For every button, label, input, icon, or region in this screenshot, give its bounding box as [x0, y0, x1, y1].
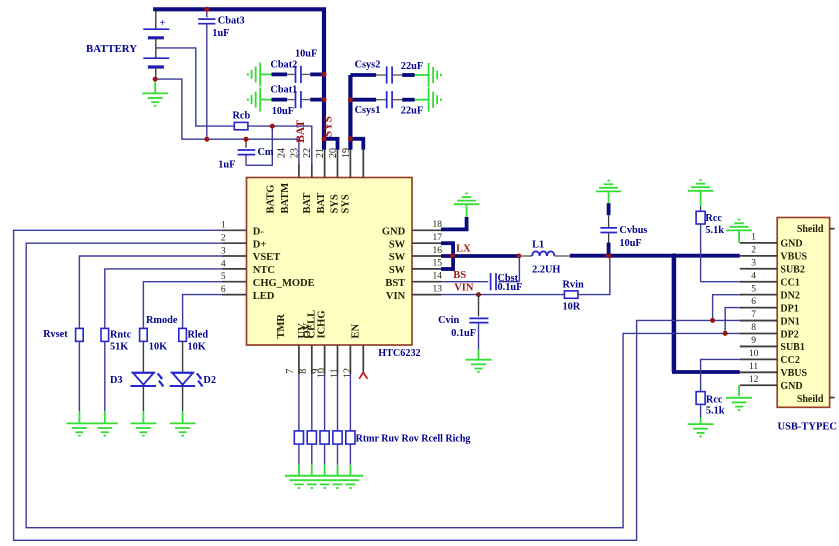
pin 19 SYS: [340, 148, 363, 214]
wire battery- to pin 24 (BATG): [155, 79, 299, 165]
pin 4 NTC: [221, 259, 275, 276]
node junction Rcb/Cm: [270, 124, 275, 129]
pin 9 OV: [302, 322, 325, 374]
svg-text:0.1uF: 0.1uF: [451, 328, 476, 339]
resistor Rntc 51K: [101, 328, 109, 423]
svg-text:+: +: [160, 17, 166, 29]
svg-text:SW: SW: [389, 239, 406, 250]
svg-text:Rcc: Rcc: [706, 394, 723, 405]
ground (Cvin): [466, 360, 492, 372]
svg-text:VIN: VIN: [454, 283, 474, 294]
ground (Rvset): [66, 423, 92, 435]
svg-text:DP1: DP1: [780, 303, 798, 314]
svg-text:8: 8: [298, 369, 309, 374]
pin 2 D+: [221, 234, 266, 251]
svg-text:DN2: DN2: [780, 290, 799, 301]
pin 3 VSET: [221, 246, 280, 263]
pin 16 SW: [389, 246, 442, 263]
pin 6 LED: [221, 285, 275, 302]
pin 17 SW: [389, 233, 442, 250]
ground (Rcc bottom): [688, 424, 714, 436]
svg-text:21: 21: [315, 148, 326, 158]
op-amp U1 HTC6232 body: [247, 178, 413, 346]
svg-text:Sheild: Sheild: [797, 394, 824, 405]
svg-text:SYS: SYS: [340, 194, 351, 213]
svg-text:DP2: DP2: [780, 329, 798, 340]
svg-text:D-: D-: [253, 227, 265, 238]
ground (Rntc): [92, 423, 118, 435]
svg-text:BATTERY: BATTERY: [86, 43, 137, 55]
pin 5 CHG_MODE: [221, 272, 315, 289]
svg-text:NTC: NTC: [253, 265, 275, 276]
node junction Csys1/SYS: [348, 97, 353, 102]
svg-text:Cvbus: Cvbus: [619, 225, 647, 236]
LED D3: [131, 373, 165, 424]
battery BT1: [143, 11, 169, 80]
svg-text:7: 7: [751, 310, 756, 320]
svg-text:Rmode: Rmode: [146, 315, 178, 326]
pin 10 CELL: [307, 310, 338, 378]
svg-text:Sheild: Sheild: [797, 224, 824, 235]
svg-text:CHG_MODE: CHG_MODE: [253, 278, 315, 289]
pin 15 SW: [389, 259, 442, 276]
pin 3 SUB2 (USB): [740, 258, 805, 275]
node junction VBUS/elbow: [671, 253, 676, 258]
pin 4 CC1 (USB): [740, 271, 800, 288]
resistor Rcc (top): [696, 206, 705, 282]
node junction Cbat3 bottom: [204, 137, 209, 142]
pin 13 VIN: [386, 284, 442, 301]
wire LX (pin16 to L1): [441, 254, 519, 258]
svg-text:Cbat1: Cbat1: [270, 85, 297, 96]
svg-text:1uF: 1uF: [212, 28, 229, 39]
resistor Rcc (bottom): [696, 359, 740, 424]
ground (pin 18): [454, 193, 480, 217]
svg-text:GND: GND: [780, 381, 802, 392]
ground (battery): [142, 79, 168, 106]
svg-text:TMR: TMR: [276, 314, 287, 339]
svg-text:VBUS: VBUS: [780, 252, 807, 263]
pin 12 GND (USB): [740, 375, 803, 392]
svg-text:23: 23: [289, 148, 300, 158]
svg-text:5: 5: [221, 272, 226, 282]
svg-text:10R: 10R: [563, 302, 581, 313]
svg-text:Rtmr Ruv Rov Rcell Richg: Rtmr Ruv Rov Rcell Richg: [356, 433, 471, 444]
svg-text:3: 3: [221, 246, 226, 256]
svg-text:1: 1: [751, 233, 756, 243]
no-connect X on pin 12 EN: [359, 372, 367, 379]
ground (Rcc top): [688, 180, 714, 206]
wire pin18 GND to ground: [441, 217, 467, 229]
svg-text:2: 2: [751, 245, 756, 255]
ground (Csys2): [429, 63, 441, 87]
svg-text:1uF: 1uF: [218, 160, 235, 171]
resistor Rov: [320, 374, 329, 476]
svg-text:10: 10: [317, 368, 328, 378]
svg-text:ICHG: ICHG: [317, 310, 328, 338]
svg-text:BST: BST: [385, 278, 405, 289]
ground (D2): [170, 423, 196, 435]
pin 24 BATG: [266, 148, 299, 214]
resistor Rcb: [234, 122, 248, 129]
pin 18 GND: [382, 220, 442, 237]
svg-text:2: 2: [221, 234, 226, 244]
svg-text:SW: SW: [389, 252, 406, 263]
svg-text:Csys1: Csys1: [355, 105, 381, 116]
ground (Cvbus): [596, 181, 622, 192]
svg-text:3: 3: [751, 258, 756, 268]
svg-text:Rcb: Rcb: [233, 110, 251, 121]
node junction Cbat1/BAT: [322, 97, 327, 102]
wire D- loop (pin1 to USB DN): [14, 230, 740, 540]
svg-text:Csys2: Csys2: [355, 59, 381, 70]
resistor Ruv: [307, 374, 316, 476]
svg-text:10: 10: [749, 349, 759, 359]
svg-text:DN1: DN1: [780, 316, 799, 327]
ground (USB pin1): [726, 220, 752, 243]
ground (Cbat2): [248, 62, 260, 86]
svg-text:CC2: CC2: [780, 355, 799, 366]
pin 2 VBUS (USB): [740, 245, 808, 262]
resistor Rled 10K: [179, 328, 187, 372]
capacitor Cm: [238, 126, 273, 165]
pin 7 TMR: [276, 314, 299, 374]
node junction battery-: [153, 77, 158, 82]
pin 7 DN1 (USB): [740, 310, 800, 327]
svg-text:USB-TYPEC: USB-TYPEC: [778, 422, 838, 433]
svg-text:19: 19: [341, 148, 352, 158]
svg-text:5: 5: [751, 284, 756, 294]
pin 10 CC2 (USB): [740, 349, 800, 366]
svg-text:GND: GND: [780, 239, 802, 250]
svg-text:15: 15: [433, 259, 443, 269]
svg-text:22: 22: [302, 148, 313, 158]
wire battery mid-tap to Rcb: [156, 48, 235, 126]
resistor Richg: [346, 374, 355, 476]
svg-text:Rled: Rled: [188, 330, 209, 341]
svg-text:5.1k: 5.1k: [706, 406, 725, 417]
node junction SW tie: [450, 253, 455, 258]
pin 14 BST: [385, 272, 442, 289]
ground (Csys1): [429, 88, 441, 112]
pin 20 SYS: [328, 148, 351, 214]
svg-text:7: 7: [285, 369, 296, 374]
ground (USB pin12): [726, 385, 752, 410]
svg-text:SYS: SYS: [330, 194, 341, 213]
svg-text:4: 4: [751, 271, 756, 281]
svg-text:BAT: BAT: [295, 120, 307, 143]
capacitor Cbat1: [260, 91, 323, 108]
capacitor Cbat3: [198, 9, 215, 139]
pin 22 BAT: [302, 148, 325, 214]
pin 8 DP2 (USB): [740, 323, 799, 340]
svg-text:14: 14: [433, 272, 443, 282]
svg-text:L1: L1: [532, 240, 544, 251]
pin 1 GND (USB): [740, 233, 803, 250]
pin 12 EN: [342, 323, 363, 378]
svg-text:Rntc: Rntc: [110, 330, 132, 341]
svg-text:SUB2: SUB2: [780, 265, 804, 276]
pin 5 DN2 (USB): [740, 284, 800, 301]
wire VIN (pin13 to Rvin): [441, 294, 565, 296]
wire SYS bus (Csys to pins 20/19): [350, 75, 363, 150]
svg-text:2.2UH: 2.2UH: [532, 265, 560, 276]
node junction Cm top: [244, 137, 249, 142]
wire Rvin to VBUS: [578, 256, 610, 295]
svg-text:11: 11: [329, 368, 340, 378]
node junction Cbat3/top: [204, 7, 209, 12]
wire LED (pin6 to Rled): [183, 295, 222, 329]
ground (resistor bank): [285, 476, 363, 488]
wire BAT bus (battery+ to pins 22/21): [155, 9, 337, 150]
svg-text:GND: GND: [382, 227, 406, 238]
svg-text:Cm: Cm: [258, 147, 274, 158]
svg-text:17: 17: [433, 233, 443, 243]
wire Rcb to pin 23 (BATM): [248, 126, 312, 165]
wire CHG_MODE (pin5 to Rmode): [143, 282, 221, 329]
svg-text:BAT: BAT: [302, 193, 313, 214]
svg-text:16: 16: [433, 246, 443, 256]
pin 1 D-: [221, 221, 264, 238]
svg-text:13: 13: [433, 284, 443, 294]
pin 11 VBUS (USB): [740, 362, 808, 379]
svg-text:CC1: CC1: [780, 278, 799, 289]
svg-text:SYS: SYS: [323, 116, 335, 137]
wire USB pin6 DP1: [725, 308, 740, 334]
svg-text:6: 6: [751, 297, 756, 307]
svg-text:12: 12: [749, 375, 759, 385]
svg-text:HTC6232: HTC6232: [378, 348, 420, 359]
node junction Cbat2/BAT: [322, 72, 327, 77]
wire NTC (pin4 to Rntc): [105, 269, 222, 329]
pin 11 ICHG: [317, 310, 351, 378]
svg-text:Cbat3: Cbat3: [218, 16, 245, 27]
svg-text:10uF: 10uF: [295, 49, 317, 60]
svg-text:10K: 10K: [149, 342, 167, 353]
resistor Rmode 10K: [140, 328, 148, 372]
node junction SYS bus elbow: [348, 136, 353, 141]
node junction DN: [710, 318, 715, 323]
capacitor Cbat2: [260, 66, 323, 83]
svg-text:8: 8: [751, 323, 756, 333]
resistor Rvset: [76, 328, 84, 423]
svg-text:22uF: 22uF: [401, 106, 423, 117]
capacitor Csys1: [350, 91, 428, 108]
svg-text:SW: SW: [389, 265, 406, 276]
svg-text:51K: 51K: [110, 342, 128, 353]
svg-text:LED: LED: [253, 291, 275, 302]
svg-text:1: 1: [221, 221, 226, 231]
node junction VBUS/Cvbus: [606, 253, 611, 258]
connector J1 USB-TYPEC body: [777, 218, 829, 408]
pin 21 BAT: [315, 148, 338, 214]
svg-text:5.1k: 5.1k: [705, 225, 724, 236]
inductor L1: [519, 251, 570, 256]
capacitor Csys2: [350, 66, 428, 83]
node junction Cbat2/BAT bus: [322, 136, 327, 141]
wire VSET (pin3 to Rvset): [79, 256, 221, 328]
svg-text:Cbat2: Cbat2: [270, 59, 297, 70]
svg-text:9: 9: [751, 336, 756, 346]
pin 8 UV: [297, 323, 312, 374]
svg-text:0.1uF: 0.1uF: [498, 282, 523, 293]
pin Sheild (top): [797, 224, 835, 235]
svg-text:22uF: 22uF: [401, 61, 423, 72]
wire D+ loop (pin2 to USB DP): [26, 243, 740, 528]
LED D2: [170, 373, 204, 424]
svg-text:BS: BS: [453, 270, 466, 281]
svg-text:D3: D3: [110, 375, 123, 386]
resistor Rvin: [564, 291, 578, 298]
pin 23 BATM: [280, 148, 312, 214]
wire VBUS (L1 to USB pin 2): [570, 254, 740, 258]
svg-text:12: 12: [342, 368, 353, 378]
svg-text:LX: LX: [456, 244, 471, 255]
pin 6 DP1 (USB): [740, 297, 799, 314]
svg-text:BATG: BATG: [266, 185, 277, 214]
svg-text:10uF: 10uF: [272, 106, 294, 117]
ground (D3): [130, 423, 156, 435]
svg-text:VSET: VSET: [253, 252, 280, 263]
svg-text:BATM: BATM: [280, 183, 291, 214]
svg-text:Cvin: Cvin: [438, 315, 459, 326]
wire VBUS to USB pin 11: [672, 254, 740, 372]
svg-text:11: 11: [749, 362, 758, 372]
node junction VIN/Cvin: [476, 292, 481, 297]
capacitor Cvbus: [600, 193, 617, 255]
pin Sheild (bottom): [797, 394, 835, 405]
svg-text:Rvset: Rvset: [43, 329, 68, 340]
wire Rcc to USB pin 4 CC1: [701, 281, 740, 283]
svg-text:24: 24: [276, 148, 287, 158]
svg-text:10K: 10K: [188, 342, 206, 353]
ground (Cbat1): [248, 88, 260, 112]
resistor Rcell: [333, 374, 342, 476]
svg-text:20: 20: [328, 148, 339, 158]
wire USB pin5 DN2: [713, 295, 740, 321]
svg-text:Rvin: Rvin: [563, 279, 584, 290]
svg-text:6: 6: [221, 285, 226, 295]
wire SW pins 17/16/15 tie bar: [441, 241, 453, 271]
svg-text:Rcc: Rcc: [705, 213, 722, 224]
svg-text:EN: EN: [351, 323, 362, 338]
capacitor Cvin: [469, 295, 488, 360]
node junction LX/Cbst: [516, 254, 521, 259]
svg-text:10uF: 10uF: [619, 238, 641, 249]
capacitor Cbst: [441, 256, 519, 290]
svg-text:18: 18: [433, 220, 443, 230]
svg-text:D+: D+: [253, 239, 267, 250]
svg-text:VBUS: VBUS: [780, 368, 807, 379]
svg-text:4: 4: [221, 259, 226, 269]
pin 9 SUB1 (USB): [740, 336, 805, 353]
resistor Rtmr: [294, 374, 303, 476]
svg-text:D2: D2: [203, 375, 216, 386]
svg-text:VIN: VIN: [386, 291, 406, 302]
node junction DP: [723, 331, 728, 336]
svg-text:BAT: BAT: [316, 193, 327, 214]
svg-text:SUB1: SUB1: [780, 342, 804, 353]
